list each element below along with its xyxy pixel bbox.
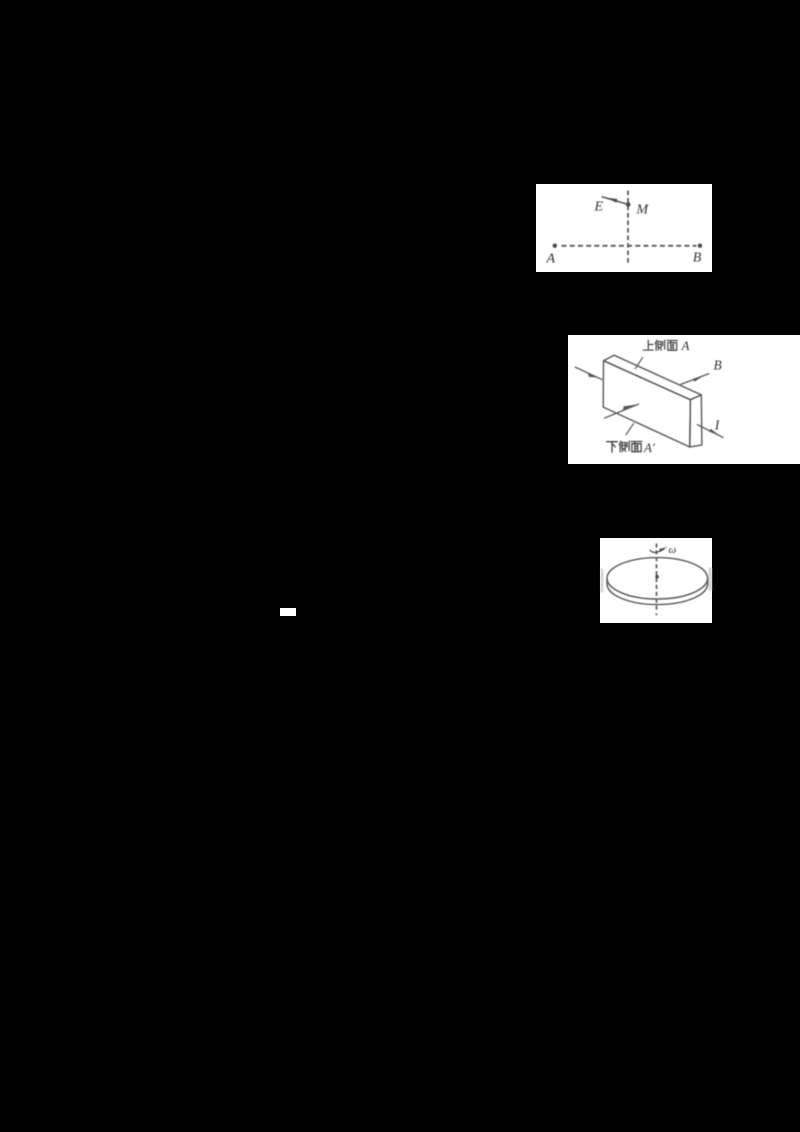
leader tick top bbox=[635, 357, 643, 369]
inner arrowhead bbox=[622, 405, 636, 412]
svg-text:E: E bbox=[593, 199, 603, 214]
dashed axis bbox=[655, 543, 657, 609]
dot B bbox=[698, 243, 702, 247]
dot M bbox=[626, 202, 631, 207]
left arrowhead bbox=[588, 373, 596, 378]
disk rim bbox=[606, 578, 707, 604]
svg-text:ω: ω bbox=[668, 543, 676, 555]
horizontal dashed line AB bbox=[562, 245, 697, 247]
right edge gray bar bbox=[708, 567, 711, 590]
svg-text:B: B bbox=[693, 250, 702, 265]
omega rotation arrow bbox=[649, 548, 664, 552]
dot A bbox=[553, 243, 557, 247]
inner arrow shaft bbox=[604, 404, 639, 418]
label 上侧面 (drawn strokes) bbox=[643, 340, 677, 350]
left edge gray bar bbox=[600, 568, 603, 592]
slab top face bbox=[604, 355, 702, 400]
svg-text:A: A bbox=[681, 338, 690, 353]
vector E shaft bbox=[602, 197, 629, 205]
I arrow shaft bbox=[697, 425, 724, 438]
svg-text:A: A bbox=[546, 251, 556, 266]
B arrowhead bbox=[693, 377, 702, 382]
vertical dashed line bbox=[627, 190, 629, 263]
vector E arrowhead bbox=[606, 198, 618, 203]
figure 1 box: points A, B, M with field E bbox=[536, 184, 712, 272]
disk top ellipse bbox=[606, 557, 707, 598]
center dot bbox=[655, 574, 659, 578]
svg-text:A′: A′ bbox=[643, 440, 655, 455]
left arrow shaft bbox=[575, 367, 602, 380]
slab right face bbox=[690, 395, 702, 447]
svg-text:M: M bbox=[635, 202, 649, 217]
svg-text:I: I bbox=[714, 419, 721, 434]
B arrow shaft bbox=[680, 374, 709, 385]
figure 2 box: Hall-effect slab bbox=[568, 335, 800, 463]
I arrowhead bbox=[709, 429, 718, 435]
axis end dot bbox=[655, 613, 657, 615]
small white rectangle bbox=[280, 608, 296, 616]
slab front face bbox=[603, 361, 690, 447]
leader tick bottom bbox=[626, 423, 634, 435]
svg-text:B: B bbox=[713, 358, 721, 373]
label 下侧面 (drawn strokes) bbox=[607, 441, 642, 452]
figure 3 box: rotating disk bbox=[600, 538, 712, 623]
